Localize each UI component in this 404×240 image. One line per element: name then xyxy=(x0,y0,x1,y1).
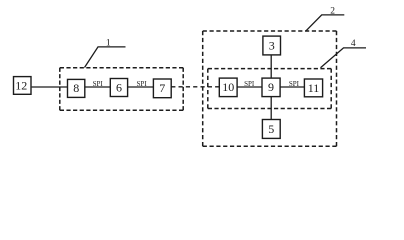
block 6 xyxy=(110,79,127,97)
svg-text:SPI: SPI xyxy=(93,80,104,88)
wire 12 to 8 xyxy=(32,86,68,88)
wire 9 to 11 xyxy=(280,86,304,88)
block 8 xyxy=(68,79,85,97)
svg-text:4: 4 xyxy=(351,39,356,49)
wire 9 to 5 xyxy=(270,96,272,119)
wire 3 to 9 xyxy=(270,55,272,78)
block 5 xyxy=(262,120,280,139)
svg-text:7: 7 xyxy=(159,81,165,95)
svg-text:1: 1 xyxy=(106,39,111,49)
svg-text:SPI: SPI xyxy=(137,80,148,88)
svg-text:9: 9 xyxy=(268,80,274,94)
leader line for label 2 xyxy=(306,15,344,31)
block 11 xyxy=(304,79,322,97)
block 9 xyxy=(262,78,280,97)
leader line for label 4 xyxy=(321,48,367,68)
svg-text:SPI: SPI xyxy=(289,80,300,88)
svg-text:12: 12 xyxy=(15,78,27,92)
svg-text:3: 3 xyxy=(269,38,275,52)
block 3 xyxy=(263,36,281,55)
svg-text:SPI: SPI xyxy=(244,80,255,88)
svg-text:11: 11 xyxy=(308,81,320,95)
svg-text:8: 8 xyxy=(73,81,79,95)
dashed group box 2 xyxy=(203,31,337,146)
wire 10 to 9 xyxy=(237,86,262,88)
dashed group box 1 xyxy=(60,68,183,111)
block 7 xyxy=(153,79,171,98)
svg-text:5: 5 xyxy=(268,122,274,136)
leader line for label 1 xyxy=(85,47,126,68)
svg-text:6: 6 xyxy=(116,80,122,94)
block 12 xyxy=(14,77,32,95)
wire 6 to 7 xyxy=(128,86,154,88)
wire 8 to 6 xyxy=(85,86,111,88)
dashed group box 4 xyxy=(208,69,331,109)
block 10 xyxy=(219,78,237,97)
svg-text:2: 2 xyxy=(330,6,335,16)
dashed wire 7 to 10 xyxy=(171,86,219,88)
svg-text:10: 10 xyxy=(222,80,234,94)
